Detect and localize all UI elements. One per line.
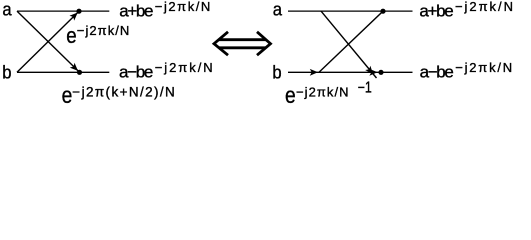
node junction dot top (left diagram) <box>76 9 81 14</box>
svg-text:−j2πk/N: −j2πk/N <box>455 60 512 75</box>
wire diagonal a to bottom node (left diagram) <box>17 11 80 72</box>
wire top horizontal (right diagram) <box>288 10 413 12</box>
arrowhead on diagonal into bottom node (right diagram) <box>365 66 375 77</box>
svg-text:e: e <box>62 82 73 107</box>
arrowhead on b wire before multiplier (right diagram) <box>310 69 318 76</box>
svg-text:e: e <box>66 25 76 49</box>
svg-text:−j2πk/N: −j2πk/N <box>296 84 349 99</box>
svg-text:a+be: a+be <box>419 1 453 20</box>
arrowhead on b wire before bottom node (right diagram) <box>369 69 377 76</box>
svg-text:a: a <box>2 0 11 20</box>
wire top horizontal (left diagram) <box>17 10 109 12</box>
svg-text:b: b <box>2 62 11 83</box>
node junction dot top (right diagram) <box>380 9 385 14</box>
wire diagonal bottom-line to top node (right diagram) <box>319 11 383 72</box>
svg-text:a−be: a−be <box>119 63 153 82</box>
arrowhead on diagonal into bottom node (left diagram) <box>70 63 81 74</box>
svg-text:−1: −1 <box>358 78 372 96</box>
svg-text:e: e <box>285 82 296 107</box>
wire bottom horizontal (right diagram) <box>288 71 413 73</box>
svg-text:a+be: a+be <box>119 1 153 20</box>
svg-text:−j2πk/N: −j2πk/N <box>455 0 513 14</box>
svg-text:−j2πk/N: −j2πk/N <box>155 0 211 14</box>
svg-text:b: b <box>272 62 281 83</box>
svg-text:−j2π(k+N/2)/N: −j2π(k+N/2)/N <box>72 85 175 100</box>
arrowhead on diagonal into top node (left diagram) <box>69 10 80 21</box>
svg-text:−j2πk/N: −j2πk/N <box>77 23 130 38</box>
wire diagonal top-line to bottom node (right diagram) <box>321 11 377 78</box>
svg-text:−j2πk/N: −j2πk/N <box>155 60 213 75</box>
equivalence double arrow <box>214 32 271 55</box>
node junction dot bottom (left diagram) <box>77 70 82 75</box>
wire diagonal b to top node (left diagram) <box>17 11 79 72</box>
wire bottom horizontal (left diagram) <box>17 71 109 73</box>
node junction dot bottom (right diagram) <box>378 70 383 75</box>
svg-text:a: a <box>273 0 282 20</box>
svg-text:a−be: a−be <box>420 63 454 82</box>
